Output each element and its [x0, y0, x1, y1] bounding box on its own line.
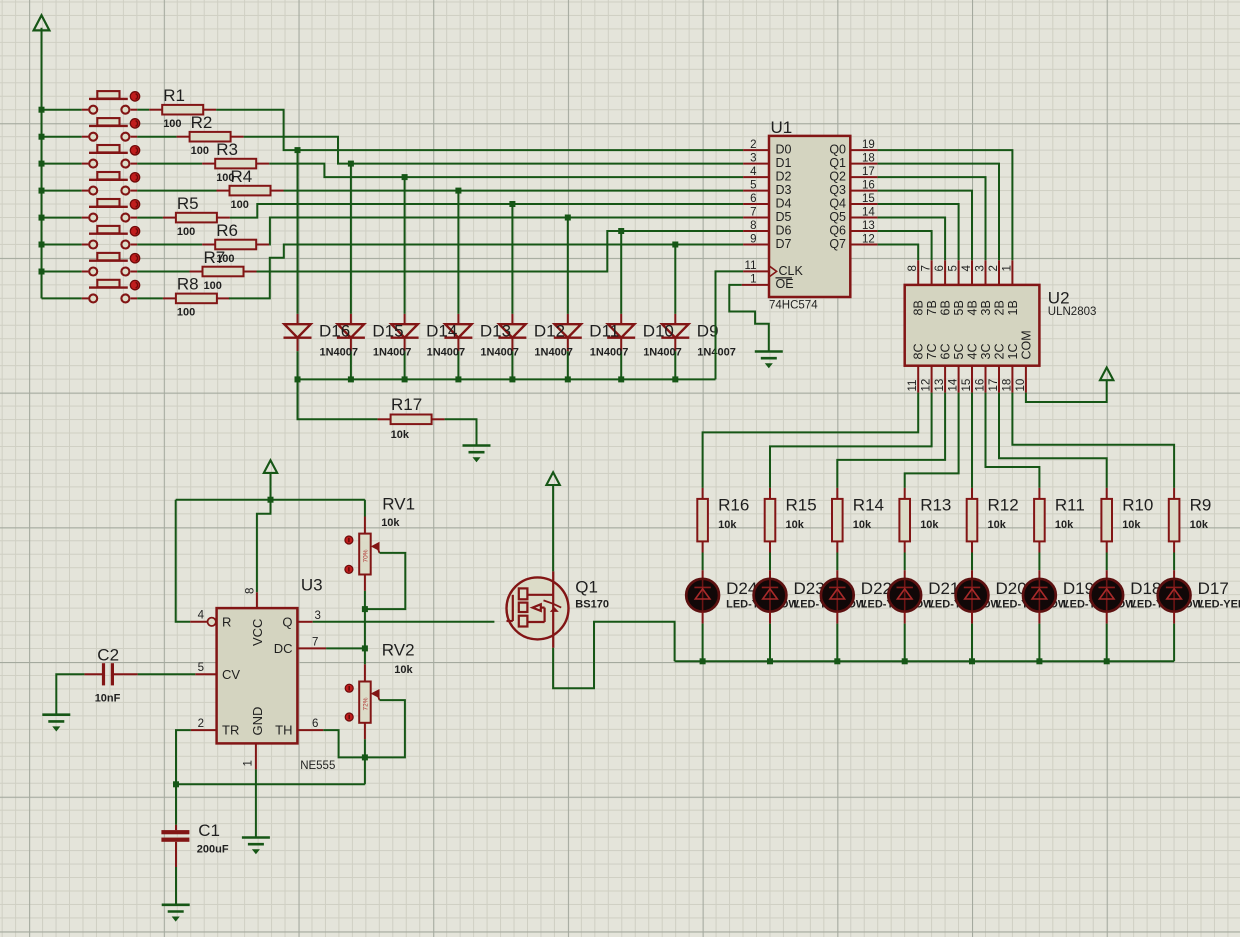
pin name U2 7B — [925, 300, 939, 315]
label R10 ref — [1122, 496, 1153, 515]
capacitor C2 10nF — [84, 663, 137, 685]
pin stub U1 Q6 — [850, 230, 877, 232]
svg-text:10k: 10k — [381, 517, 400, 529]
label R4 value 100 — [231, 199, 249, 211]
pin name U1 D4 — [776, 196, 792, 210]
pin number U1 8 — [750, 220, 756, 232]
LED D18 — [1090, 570, 1123, 623]
svg-text:C2: C2 — [97, 646, 119, 665]
svg-text:4B: 4B — [966, 300, 980, 315]
wire VCC rail U3 — [270, 473, 272, 500]
label R12 value 10k — [988, 519, 1007, 531]
pin stub U3 GND 1 — [255, 743, 257, 769]
wire LED D23 cathode — [769, 624, 771, 662]
wire LED cathode rail — [675, 660, 1175, 662]
pin number U1 3 — [750, 153, 756, 165]
svg-text:D13: D13 — [480, 322, 511, 341]
wire RV1 wiper loop — [365, 553, 405, 609]
wire net R5-D4 — [230, 204, 743, 218]
label D22 ref — [861, 579, 892, 598]
wire diode D15 anode drop — [350, 164, 352, 314]
pot RV1 up button — [345, 536, 353, 544]
pin number U1 7 — [750, 207, 756, 219]
svg-text:U1: U1 — [771, 118, 793, 137]
diode D11 1N4007 — [554, 314, 582, 351]
wire diode D16 cathode drop — [297, 351, 299, 379]
pin stub button 7 right — [131, 271, 138, 273]
svg-text:1: 1 — [243, 760, 255, 766]
pin name U2 2C — [993, 344, 1007, 360]
pin name U1 Q0 — [829, 143, 846, 157]
pin number U2 6 — [934, 265, 946, 271]
wire U2 out 12 to resistor — [770, 393, 932, 488]
wire GND pin to ground — [255, 769, 257, 837]
label R10 value 10k — [1122, 519, 1141, 531]
svg-text:1B: 1B — [1006, 300, 1020, 315]
svg-text:11: 11 — [745, 260, 757, 272]
diode D15 1N4007 — [337, 314, 365, 351]
wire Q1 to U2 pin 2 — [878, 164, 999, 261]
pin name U3 TH — [275, 723, 292, 738]
pin number U2 17 — [988, 379, 1000, 392]
pin number U1 14 — [862, 207, 875, 219]
label Q1 value BS170 — [575, 599, 609, 611]
junction rail x621 — [618, 376, 624, 382]
pin stub U3 CV 5 — [195, 673, 216, 675]
label R16 value 10k — [718, 519, 737, 531]
svg-text:8: 8 — [245, 588, 257, 594]
svg-text:CLK: CLK — [779, 264, 804, 278]
pin name U1 D2 — [776, 170, 792, 184]
label R7 ref — [204, 248, 226, 267]
pin stub U2 5B — [958, 260, 960, 285]
label D19 value LED-YELLOW — [1063, 599, 1136, 611]
svg-text:100: 100 — [191, 145, 209, 157]
wire U2 out 15 to resistor — [971, 393, 973, 488]
pin stub button 6 left — [82, 244, 89, 246]
push button 7 — [89, 253, 140, 276]
pin stub U1 Q3 — [850, 190, 877, 192]
svg-text:10: 10 — [1015, 379, 1027, 392]
svg-text:100: 100 — [231, 199, 249, 211]
svg-text:6C: 6C — [939, 344, 953, 360]
wire CV to C2 — [138, 673, 196, 675]
label D24 value LED-YELLOW — [726, 599, 799, 611]
pin name U2 4C — [966, 344, 980, 360]
svg-text:4: 4 — [198, 610, 205, 622]
svg-text:R6: R6 — [216, 221, 238, 240]
LED D20 — [956, 570, 989, 623]
label U2 value ULN2803 — [1048, 306, 1097, 318]
label D16 ref — [319, 322, 350, 341]
label RV1 ref — [382, 495, 415, 514]
pin number U2 1 — [1001, 265, 1013, 271]
pin stub U1 D0 — [743, 149, 769, 151]
label D18 value LED-YELLOW — [1130, 599, 1203, 611]
svg-text:1N4007: 1N4007 — [320, 347, 359, 359]
svg-text:16: 16 — [862, 180, 875, 192]
resistor R1 — [149, 105, 216, 115]
diode D10 1N4007 — [607, 314, 635, 351]
junction bus row3 — [39, 161, 45, 167]
wire Q1 source to LED rail — [553, 622, 675, 689]
pin name U2 3B — [979, 300, 993, 315]
svg-text:R1: R1 — [163, 86, 185, 105]
svg-text:R13: R13 — [920, 496, 951, 515]
junction rail x567 — [565, 376, 571, 382]
label R4 ref — [231, 167, 253, 186]
resistor R6 — [202, 240, 269, 250]
wire CLK net — [716, 271, 744, 379]
svg-text:15: 15 — [862, 193, 875, 205]
svg-text:9: 9 — [750, 234, 756, 246]
power flag VCC at U3 — [264, 460, 277, 473]
junction LED rail x1039 — [1036, 658, 1042, 664]
wire U2 out 17 to resistor — [999, 393, 1107, 488]
label R9 ref — [1190, 496, 1212, 515]
label R12 ref — [988, 496, 1019, 515]
junction rail x404 — [402, 376, 408, 382]
svg-text:8B: 8B — [912, 300, 926, 315]
pin stub U2 3B — [985, 260, 987, 285]
svg-text:D16: D16 — [319, 322, 350, 341]
svg-text:74HC574: 74HC574 — [769, 299, 818, 311]
pin number U3 1 — [243, 760, 255, 766]
pin stub U2 6B — [944, 260, 946, 285]
wire diode D11 anode drop — [567, 218, 569, 314]
svg-text:R11: R11 — [1055, 496, 1085, 515]
pin stub U2 5C — [958, 366, 960, 393]
svg-text:D14: D14 — [426, 322, 457, 341]
svg-text:U2: U2 — [1048, 289, 1070, 308]
svg-text:D4: D4 — [776, 196, 792, 210]
pin name U1 Q5 — [829, 210, 846, 224]
pin number U2 5 — [948, 265, 960, 271]
wire U2 out 16 to resistor — [986, 393, 1040, 488]
pin name U2 4B — [966, 300, 980, 315]
junction D row 0 at x297 — [295, 147, 301, 153]
label U1 value 74HC574 — [769, 299, 818, 311]
pin name U3 VCC — [250, 619, 265, 646]
svg-text:4: 4 — [961, 265, 973, 272]
svg-text:1N4007: 1N4007 — [373, 347, 412, 359]
pin stub U1 Q4 — [850, 203, 877, 205]
junction D row 5 at x567 — [565, 215, 571, 221]
wire diode D10 anode drop — [620, 231, 622, 314]
pin stub U2 8B — [917, 260, 919, 285]
wire Q7 to U2 pin 8 — [878, 245, 919, 261]
pin number U3 7 — [312, 637, 318, 649]
label R9 value 10k — [1190, 519, 1209, 531]
svg-text:10nF: 10nF — [95, 693, 121, 705]
pin name U1 D3 — [776, 183, 792, 197]
wire U2 out 14 to resistor — [905, 393, 959, 488]
svg-text:5: 5 — [948, 265, 960, 271]
svg-text:18: 18 — [1001, 379, 1013, 392]
svg-text:2: 2 — [988, 265, 1000, 271]
pin stub button 4 left — [82, 190, 89, 192]
label RV2 value 10k — [394, 664, 413, 676]
wire net R7-D6 — [257, 231, 744, 272]
junction bus row2 — [39, 134, 45, 140]
label D21 value LED-YELLOW — [928, 599, 1001, 611]
junction bus row6 — [39, 242, 45, 248]
svg-text:D7: D7 — [776, 237, 792, 251]
LED D19 — [1023, 570, 1056, 623]
wire R14 to LED — [836, 553, 838, 571]
ground C2 — [42, 715, 70, 731]
svg-text:Q3: Q3 — [829, 183, 846, 197]
wire button 5 to R5 — [137, 217, 163, 219]
wire button 1 to R1 — [137, 109, 149, 111]
pin number U3 2 — [198, 718, 204, 730]
wire R16 to LED — [702, 553, 704, 571]
push button 3 — [89, 145, 140, 168]
wire RV1 bottom to DC — [364, 591, 366, 649]
pin number U2 10 — [1015, 379, 1027, 392]
pin name U2 COM — [1019, 330, 1033, 359]
push button 6 — [89, 226, 140, 249]
resistor R13 — [899, 488, 910, 553]
pin name U1 D7 — [776, 237, 792, 251]
wire bus to button 2 — [42, 136, 82, 138]
pin name U1 Q7 — [829, 237, 846, 251]
diode D13 1N4007 — [444, 314, 472, 351]
svg-text:14: 14 — [948, 378, 960, 391]
wire button 4 to R4 — [137, 190, 216, 192]
svg-text:OE: OE — [776, 277, 794, 291]
svg-text:7: 7 — [312, 637, 318, 649]
pin number U1 18 — [862, 153, 875, 165]
label D16 value 1N4007 — [320, 347, 359, 359]
svg-text:VCC: VCC — [250, 619, 265, 646]
label R6 value 100 — [216, 253, 234, 265]
pin stub U2 COM — [1025, 366, 1027, 393]
pin number U2 2 — [988, 265, 1000, 271]
wire LED D17 cathode — [1173, 624, 1175, 662]
wire net R4-D3 — [284, 190, 744, 192]
label R1 ref — [163, 86, 185, 105]
pin stub button 1 left — [82, 109, 89, 111]
wire R17 to ground — [445, 419, 477, 445]
pin name U1 D6 — [776, 223, 792, 237]
label Q1 ref — [575, 578, 598, 597]
wire node to C1 — [175, 784, 177, 825]
svg-text:D17: D17 — [1198, 579, 1229, 598]
junction DC node — [362, 645, 368, 651]
label D13 value 1N4007 — [480, 347, 519, 359]
wire net R1-D0 — [216, 110, 743, 150]
wire OE net — [729, 285, 769, 351]
pin stub U2 2C — [998, 366, 1000, 393]
junction LED rail x770 — [767, 658, 773, 664]
svg-text:10k: 10k — [920, 519, 939, 531]
svg-text:ULN2803: ULN2803 — [1048, 306, 1097, 318]
wire diode cathode rail — [298, 378, 716, 380]
pin number U3 3 — [315, 610, 321, 622]
wire button 2 to R2 — [137, 136, 176, 138]
wire LED D24 cathode — [702, 624, 704, 662]
label U3 ref — [301, 576, 323, 595]
wire diode D13 cathode drop — [457, 351, 459, 379]
svg-text:TR: TR — [222, 723, 239, 738]
svg-text:1N4007: 1N4007 — [590, 347, 629, 359]
svg-text:R2: R2 — [191, 113, 213, 132]
potentiometer RV2 10k — [359, 664, 379, 739]
pin stub button 3 right — [131, 163, 138, 165]
pin number U2 14 — [948, 378, 960, 391]
svg-text:D2: D2 — [776, 170, 792, 184]
pin number U2 11 — [907, 380, 919, 392]
svg-text:2C: 2C — [993, 344, 1007, 360]
pin stub U3 DC 7 — [297, 647, 326, 649]
pin stub U3 TR 2 — [191, 729, 217, 731]
clock wedge U1 — [769, 266, 777, 277]
pin name U1 Q4 — [829, 196, 846, 210]
wire net R8-D7 — [229, 245, 743, 299]
svg-text:3: 3 — [315, 610, 321, 622]
transistor Q1 BS170 — [507, 571, 569, 648]
svg-text:C1: C1 — [198, 821, 220, 840]
pin number U1 19 — [862, 139, 875, 151]
pin name U1 Q1 — [829, 156, 846, 170]
svg-text:Q7: Q7 — [829, 237, 846, 251]
svg-text:RV2: RV2 — [382, 641, 415, 660]
pin number U2 12 — [921, 379, 933, 392]
svg-text:Q2: Q2 — [829, 170, 846, 184]
svg-text:2: 2 — [198, 718, 204, 730]
svg-text:3: 3 — [975, 265, 987, 271]
label D15 value 1N4007 — [373, 347, 412, 359]
pin stub U1 Q1 — [850, 163, 877, 165]
pin name U1 Q3 — [829, 183, 846, 197]
pin number U3 5 — [198, 662, 204, 674]
pin stub U1 Q2 — [850, 176, 877, 178]
svg-text:10k: 10k — [786, 519, 805, 531]
label D10 ref — [643, 322, 674, 341]
svg-text:10k: 10k — [1190, 519, 1209, 531]
label C1 ref — [198, 821, 220, 840]
pin name U1 D5 — [776, 210, 792, 224]
svg-text:72%: 72% — [363, 697, 370, 710]
pin number U2 15 — [961, 379, 973, 392]
svg-text:R17: R17 — [391, 395, 422, 414]
pin stub U2 7B — [931, 260, 933, 285]
label R8 ref — [177, 275, 199, 294]
svg-text:5: 5 — [750, 180, 756, 192]
wire VCC bus left — [41, 28, 43, 299]
pin name U1 OE with overline — [776, 277, 794, 291]
junction RV1 bottom — [362, 606, 368, 612]
svg-text:R10: R10 — [1122, 496, 1153, 515]
svg-text:R15: R15 — [786, 496, 817, 515]
svg-text:COM: COM — [1019, 330, 1033, 359]
wire diode D14 cathode drop — [404, 351, 406, 379]
label C1 value 200uF — [197, 843, 229, 855]
wire TR left — [176, 730, 191, 784]
wire button 8 to R8 — [137, 297, 163, 299]
pin stub U2 4B — [971, 260, 973, 285]
wire VCC rail to RV1 — [364, 500, 366, 517]
pin name U1 D1 — [776, 156, 792, 170]
pin number U1 4 — [750, 166, 757, 178]
svg-text:14: 14 — [862, 207, 875, 219]
pin number U2 16 — [975, 379, 987, 392]
svg-text:R: R — [222, 615, 231, 630]
resistor R7 — [190, 267, 257, 277]
pin stub U1 CLK — [743, 270, 769, 272]
resistor R15 — [765, 488, 776, 553]
svg-text:3C: 3C — [979, 344, 993, 360]
power flag VCC top-left — [34, 15, 50, 30]
svg-text:100: 100 — [177, 307, 195, 319]
junction D row 4 at x512 — [509, 201, 515, 207]
LED D17 — [1158, 570, 1191, 623]
svg-text:100: 100 — [204, 280, 222, 292]
wire diode D14 anode drop — [404, 177, 406, 314]
wire diode D11 cathode drop — [567, 351, 569, 379]
wire R10 to LED — [1106, 553, 1108, 571]
pin stub button 5 left — [82, 217, 89, 219]
pin name U2 1C — [1006, 344, 1020, 360]
push button 5 — [89, 199, 140, 222]
pin number U1 13 — [862, 220, 875, 232]
wire Q2 to U2 pin 3 — [878, 177, 986, 260]
wire diode D16 anode drop — [297, 150, 299, 314]
resistor R3 — [202, 159, 269, 169]
svg-text:1: 1 — [750, 273, 756, 285]
push button 1 — [89, 91, 140, 114]
pin stub button 7 left — [82, 271, 89, 273]
LED D22 — [821, 570, 854, 623]
wire diode D9 cathode drop — [674, 351, 676, 379]
wire diode D12 anode drop — [511, 204, 513, 314]
svg-text:1N4007: 1N4007 — [643, 347, 682, 359]
wire bus to button 6 — [42, 244, 82, 246]
pin number U3 6 — [312, 718, 318, 730]
IC U2 ULN2803 body — [905, 285, 1040, 366]
pin number U1 11 — [745, 260, 757, 272]
wire bottom node to TR/C1 — [176, 783, 365, 785]
pin name U2 5C — [952, 344, 966, 360]
wire RV2 wiper loop — [365, 700, 405, 757]
wire net R2-D1 — [244, 137, 743, 164]
LED D21 — [888, 570, 921, 623]
pin stub U2 3C — [985, 366, 987, 393]
pin name U2 2B — [993, 300, 1007, 315]
label R15 value 10k — [786, 519, 805, 531]
svg-text:200uF: 200uF — [197, 843, 229, 855]
pin number U2 18 — [1001, 379, 1013, 392]
pin name U1 D0 — [776, 143, 792, 157]
wire LED D22 cathode — [836, 624, 838, 662]
pot RV2 up button — [345, 684, 353, 692]
junction D row 6 at x621 — [618, 228, 624, 234]
label R2 ref — [191, 113, 213, 132]
svg-text:1N4007: 1N4007 — [427, 347, 466, 359]
svg-text:7C: 7C — [925, 344, 939, 360]
svg-text:6: 6 — [312, 718, 318, 730]
diode D16 1N4007 — [284, 314, 312, 351]
wire diode D13 anode drop — [457, 191, 459, 314]
resistor R16 — [697, 488, 708, 553]
pin name U3 Q — [282, 615, 292, 630]
svg-text:8: 8 — [750, 220, 756, 232]
junction bus row7 — [39, 269, 45, 275]
label R13 ref — [920, 496, 951, 515]
svg-text:19: 19 — [862, 139, 875, 151]
pin number U3 4 — [198, 610, 205, 622]
